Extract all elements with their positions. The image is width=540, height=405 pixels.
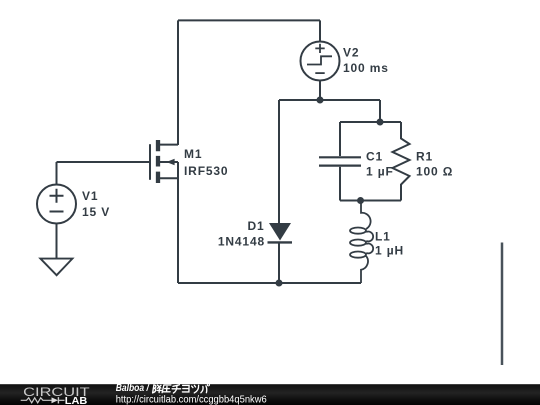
- svg-text:http://circuitlab.com/ccggbb4q: http://circuitlab.com/ccggbb4q5nkw6: [116, 393, 267, 405]
- svg-text:100 ms: 100 ms: [343, 61, 389, 75]
- svg-text:L1: L1: [375, 229, 391, 243]
- svg-text:M1: M1: [184, 147, 202, 161]
- mosfet M1 gate bar: [149, 144, 151, 180]
- V1 plus sign: [50, 189, 64, 203]
- wire top horizontal: [178, 19, 320, 21]
- logo wire to LAB: [58, 399, 64, 401]
- mosfet M1 drain lead: [158, 144, 178, 146]
- svg-text:1N4148: 1N4148: [218, 234, 265, 248]
- svg-text:IRF530: IRF530: [184, 164, 228, 178]
- svg-text:LAB: LAB: [65, 396, 88, 405]
- V2 step waveform: [307, 56, 332, 64]
- node junction RC top: [377, 119, 384, 126]
- wire M1 source vertical down: [177, 162, 179, 283]
- node junction V2 out: [317, 97, 324, 104]
- svg-text:V2: V2: [343, 46, 359, 60]
- wire bottom horizontal: [178, 282, 361, 284]
- mosfet M1 gate wire from V1: [57, 161, 150, 163]
- wire D1 branch down from y=100: [278, 100, 280, 225]
- diode D1 triangle: [269, 223, 291, 241]
- wire V2 top lead: [319, 20, 321, 41]
- V2 plus sign: [315, 44, 324, 53]
- inductor L1: [361, 201, 373, 284]
- svg-text:1 µH: 1 µH: [375, 244, 404, 258]
- svg-text:15 V: 15 V: [82, 205, 110, 219]
- ground symbol: [40, 259, 72, 276]
- wire D1 bottom lead: [278, 242, 280, 283]
- logo wire with resistor zigzag: [21, 398, 52, 403]
- logo diode: [52, 397, 59, 403]
- wire RC top bracket: [340, 121, 401, 123]
- footer bar: [0, 384, 540, 405]
- wire V1 bottom lead: [56, 224, 58, 259]
- svg-text:D1: D1: [247, 219, 264, 233]
- mosfet M1 source lead: [158, 177, 178, 179]
- V2 minus sign: [315, 72, 324, 74]
- diode D1 cathode bar: [268, 241, 293, 243]
- wire V1 top lead: [56, 162, 58, 185]
- mosfet M1 channel bars: [156, 140, 160, 183]
- node junction RC bottom / L1: [357, 197, 364, 204]
- svg-text:1 µF: 1 µF: [366, 164, 394, 178]
- wire left vertical (top to M1 drain): [177, 20, 179, 145]
- svg-text:C1: C1: [366, 149, 383, 163]
- wire node row y=100: [279, 99, 380, 101]
- wire RC bottom bracket: [340, 200, 401, 202]
- wire C1 bottom lead: [339, 167, 341, 201]
- mosfet M1 body lead: [159, 161, 178, 163]
- voltage source V2 circle: [301, 42, 340, 81]
- wire right branch down to RC bracket: [379, 100, 381, 122]
- wire V2 bottom lead: [319, 81, 321, 101]
- stray vertical line right side: [501, 243, 504, 366]
- svg-text:100 Ω: 100 Ω: [416, 164, 453, 178]
- resistor R1: [393, 122, 410, 201]
- svg-text:R1: R1: [416, 149, 433, 163]
- voltage source V1 circle: [37, 185, 76, 224]
- node junction D1 bottom: [276, 280, 283, 287]
- mosfet M1 body arrow: [166, 159, 174, 166]
- wire C1 top lead: [339, 122, 341, 156]
- V1 minus sign: [50, 211, 64, 213]
- svg-text:V1: V1: [82, 189, 98, 203]
- capacitor C1 plates: [319, 157, 361, 165]
- footer title Japanese glyphs (hand drawn): [153, 384, 210, 393]
